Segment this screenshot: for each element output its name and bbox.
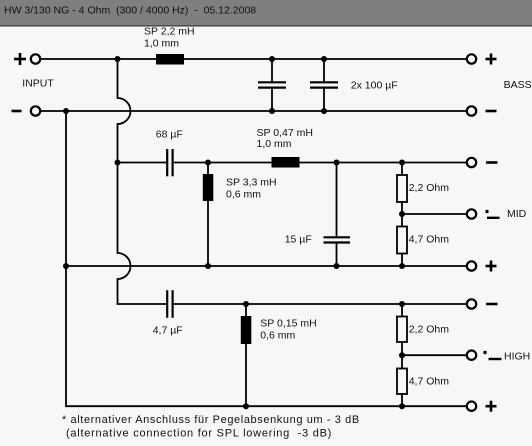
resistor R2 4,7 Ohm xyxy=(397,227,407,254)
wire minus rail xyxy=(40,110,467,112)
junction high plus at R4 xyxy=(399,403,405,409)
svg-text:SP 2,2 mH: SP 2,2 mH xyxy=(144,26,195,38)
MID minus sign xyxy=(486,161,498,164)
capacitor C1 100 µF xyxy=(258,59,286,111)
wire high tap rail xyxy=(402,354,467,356)
svg-text:68 µF: 68 µF xyxy=(156,129,183,141)
HIGH tap minus sign xyxy=(489,358,502,360)
svg-text:HW 3/130 NG - 4 Ohm (300 / 40: HW 3/130 NG - 4 Ohm (300 / 4000 Hz) - 05… xyxy=(4,5,256,17)
svg-text:0,6 mm: 0,6 mm xyxy=(260,329,295,341)
label SP 3,3 mH 0,6 mm xyxy=(226,177,277,201)
MID plus sign xyxy=(486,261,497,272)
wire mid tap rail xyxy=(402,213,467,215)
svg-text:SP 3,3 mH: SP 3,3 mH xyxy=(226,177,277,189)
wire high resistor chain xyxy=(401,304,403,406)
junction mid plus at L3 xyxy=(205,263,211,269)
junction high plus at L4 xyxy=(243,403,249,409)
inductor L3 SP 3,3 mH xyxy=(203,163,214,267)
svg-text:2,2 Ohm: 2,2 Ohm xyxy=(409,324,450,336)
svg-text:2,2 Ohm: 2,2 Ohm xyxy=(409,182,450,194)
junction mid feed at C4 xyxy=(334,160,340,166)
input plus sign xyxy=(14,53,26,65)
junction top rail at C2 xyxy=(321,56,327,62)
svg-text:0,6 mm: 0,6 mm xyxy=(226,189,261,201)
wire vertical feed from plus with hops xyxy=(118,59,167,304)
wire mid feed rail xyxy=(118,162,467,164)
svg-text:SP 0,15 mH: SP 0,15 mH xyxy=(260,318,316,330)
capacitor C4 15 µF xyxy=(324,163,351,267)
title bar xyxy=(0,0,532,27)
wire mid plus rail xyxy=(66,265,467,267)
HIGH tap star xyxy=(483,351,486,354)
label SP 0,15 mH 0,6 mm xyxy=(260,318,316,342)
capacitor C3 68 µF xyxy=(167,149,172,176)
terminal BASS minus xyxy=(467,106,476,115)
junction mid plus at R2 xyxy=(399,263,405,269)
inductor L2 SP 0,47 mH xyxy=(272,157,300,168)
junction top rail at C1 xyxy=(269,56,275,62)
terminal HIGH minus xyxy=(467,299,476,308)
inductor L4 SP 0,15 mH xyxy=(241,304,252,406)
svg-text:4,7 Ohm: 4,7 Ohm xyxy=(409,234,450,246)
resistor R3 2,2 Ohm xyxy=(397,317,407,343)
svg-text:4,7 µF: 4,7 µF xyxy=(153,324,183,336)
junction high feed at L4 xyxy=(243,301,249,307)
svg-text:1,0 mm: 1,0 mm xyxy=(144,37,179,49)
BASS plus sign xyxy=(486,54,497,65)
svg-text:INPUT: INPUT xyxy=(22,78,54,90)
terminal MID minus xyxy=(467,158,476,167)
junction high tap xyxy=(399,352,405,358)
terminal MID tap xyxy=(467,209,476,218)
capacitor C5 4,7 µF xyxy=(167,290,172,318)
input terminal plus xyxy=(31,54,40,63)
inductor L1 SP 2,2 mH xyxy=(156,54,184,65)
wire high feed rail right part xyxy=(174,303,467,305)
svg-text:2x 100 µF: 2x 100 µF xyxy=(351,80,398,92)
wire top rail xyxy=(40,58,467,60)
terminal HIGH tap xyxy=(467,351,476,360)
junction mid tap xyxy=(399,211,405,217)
HIGH minus sign xyxy=(486,303,498,306)
svg-text:BASS: BASS xyxy=(504,79,532,91)
junction mid plus at C4 xyxy=(334,263,340,269)
junction mid feed at R1 xyxy=(399,160,405,166)
svg-text:HIGH: HIGH xyxy=(504,350,530,362)
svg-text:15 µF: 15 µF xyxy=(285,234,312,246)
input minus sign xyxy=(12,110,22,113)
resistor R1 2,2 Ohm xyxy=(397,175,407,202)
resistor R4 4,7 Ohm xyxy=(397,369,407,395)
terminal MID plus xyxy=(467,261,476,270)
label SP 0,47 mH 1,0 mm xyxy=(257,127,313,150)
input terminal minus xyxy=(31,106,40,115)
junction top rail at feed xyxy=(115,56,121,62)
HIGH plus sign xyxy=(486,401,497,412)
junction minus rail at C1 xyxy=(269,108,275,114)
capacitor C2 100 µF xyxy=(310,59,338,111)
junction minus rail at input branch xyxy=(63,108,69,114)
svg-text:(alternative connection for SP: (alternative connection for SPL lowering… xyxy=(66,428,332,440)
junction minus rail at C2 xyxy=(321,108,327,114)
junction mid feed at vertical xyxy=(115,160,121,166)
svg-text:MID: MID xyxy=(507,208,527,220)
terminal BASS plus xyxy=(467,54,476,63)
svg-text:SP 0,47 mH: SP 0,47 mH xyxy=(257,127,313,139)
svg-text:* alternativer Anschluss für P: * alternativer Anschluss für Pegelabsenk… xyxy=(62,414,360,426)
svg-text:1,0 mm: 1,0 mm xyxy=(257,138,292,150)
junction mid plus at input minus xyxy=(63,263,69,269)
wire mid resistor chain xyxy=(401,163,403,267)
svg-text:4,7 Ohm: 4,7 Ohm xyxy=(409,376,450,388)
junction high feed at R3 xyxy=(399,301,405,307)
BASS minus sign xyxy=(486,110,497,113)
terminal HIGH plus xyxy=(467,402,476,411)
MID tap star xyxy=(485,210,488,213)
wire input minus vertical xyxy=(66,111,467,406)
MID tap minus sign xyxy=(487,217,500,219)
junction mid feed at L3 xyxy=(205,160,211,166)
label SP 2,2 mH 1,0 mm xyxy=(144,26,195,50)
